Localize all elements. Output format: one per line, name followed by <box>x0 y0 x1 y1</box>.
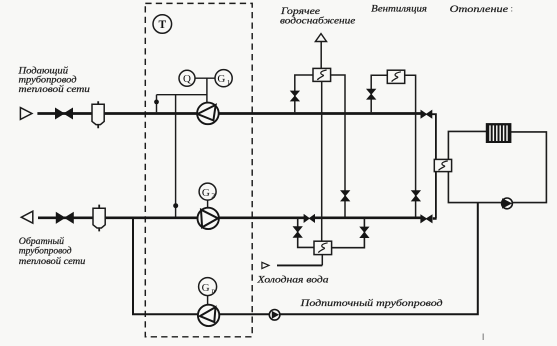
svg-text:G: G <box>202 282 210 294</box>
wire Q-G1 connector <box>195 77 215 79</box>
strainer F2 on return <box>93 205 105 232</box>
cold water inlet arrow <box>262 262 269 268</box>
svg-text:2: 2 <box>211 191 215 200</box>
wire RT2 right branch to return <box>405 75 416 217</box>
double valve on return from heating <box>421 215 432 222</box>
wire HW vertical through line <box>321 81 324 265</box>
svg-text:тепловой сети: тепловой сети <box>19 256 86 266</box>
pump P2 on return <box>198 208 219 229</box>
hot water outlet arrow <box>315 34 326 42</box>
svg-text:Подпиточный трубопровод: Подпиточный трубопровод <box>299 298 442 309</box>
svg-text:Отопление: Отопление <box>450 4 508 14</box>
valve on RT3 right branch <box>360 227 369 238</box>
svg-text:Обратный: Обратный <box>19 236 65 246</box>
svg-text:1: 1 <box>227 78 231 87</box>
elevator mixing unit <box>434 159 451 171</box>
svg-text:трубопровод: трубопровод <box>19 245 72 255</box>
wire RT3 right branch to return <box>332 218 365 248</box>
valve on ventilation return drop <box>412 191 421 201</box>
svg-text:G: G <box>202 187 210 199</box>
svg-text:Горячее: Горячее <box>280 6 320 16</box>
wire RT2 left branch <box>371 75 387 112</box>
sensor circle G1 <box>215 70 232 87</box>
return pipeline outlet arrow <box>21 211 33 223</box>
svg-text:Т: Т <box>158 19 166 31</box>
node supply sensor <box>154 100 159 105</box>
wire supply corner to elevator <box>432 114 436 159</box>
wire HW riser <box>320 42 322 69</box>
double valve on supply entering heating <box>421 111 432 118</box>
valve on return line <box>56 213 73 224</box>
valve on supply line <box>55 108 72 119</box>
wire cold water line <box>277 264 322 266</box>
sensor circle T <box>153 15 172 34</box>
wire return corner to elevator <box>435 172 437 219</box>
valve on RT1 supply tap <box>291 91 300 101</box>
wire sensor drop to pump P1 <box>206 78 208 103</box>
pump P3 on makeup line <box>198 305 219 326</box>
valve on return line mid <box>304 215 315 223</box>
wire sensor header <box>157 94 207 96</box>
wire supply main line <box>37 112 421 115</box>
svg-text:n: n <box>212 286 216 295</box>
svg-text:тепловой сети: тепловой сети <box>19 84 91 94</box>
sensor circle Gn <box>199 278 217 296</box>
wire RT3 left branch to return <box>298 218 314 247</box>
regulator RT3 cold water make-up <box>314 241 332 254</box>
wire heating loop <box>448 131 546 202</box>
circulation pump of heating loop <box>502 198 513 209</box>
wire G2 stem <box>207 200 209 207</box>
radiator of heating system <box>486 124 511 143</box>
valve on RT3 left branch <box>293 227 302 238</box>
svg-text:трубопровод: трубопровод <box>19 74 77 84</box>
pump P1 on supply <box>197 103 219 125</box>
wire return main line <box>38 217 437 220</box>
wire supply sensing tap <box>156 95 158 113</box>
sensor circle Q <box>179 70 195 86</box>
dashed boundary of metering unit <box>145 3 252 336</box>
wire RT1 left branch <box>295 75 313 112</box>
makeup pump (filled) <box>269 310 280 321</box>
wire RT1 right branch (circulation) <box>331 75 345 217</box>
svg-text:Холодная вода: Холодная вода <box>256 274 329 284</box>
scan artifact tick <box>483 334 484 341</box>
valve on HW circulation drop <box>341 191 350 201</box>
wire return sensing line <box>175 95 177 217</box>
svg-text:G: G <box>217 73 225 85</box>
sensor circle G2 <box>199 183 216 200</box>
strainer F1 on supply <box>92 101 104 128</box>
svg-text::: : <box>511 4 514 14</box>
svg-text:Q: Q <box>183 73 191 85</box>
supply pipeline inlet arrow <box>20 108 32 120</box>
wire Gn stem <box>207 296 209 305</box>
svg-text:водоснабжение: водоснабжение <box>280 16 355 26</box>
svg-text:Вентиляция: Вентиляция <box>371 4 427 14</box>
valve on RT2 supply tap <box>367 89 376 99</box>
regulator RT1 hot water <box>313 68 331 81</box>
node return sensor <box>173 203 178 208</box>
wire makeup riser from return line <box>133 203 478 315</box>
regulator RT2 ventilation <box>387 70 404 83</box>
